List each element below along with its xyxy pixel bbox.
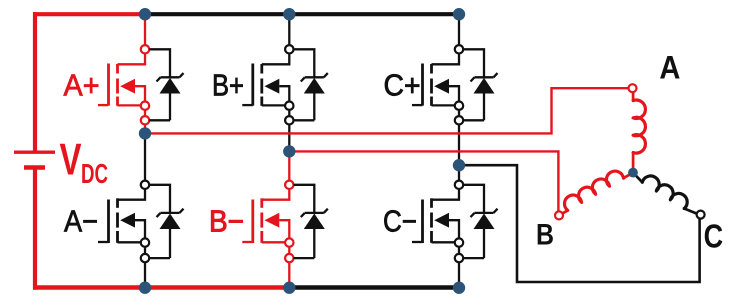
svg-text:B: B (536, 219, 554, 252)
svg-text:C: C (704, 218, 724, 255)
svg-text:A: A (659, 49, 680, 85)
svg-text:B+: B+ (212, 69, 244, 103)
svg-text:A+: A+ (64, 69, 100, 103)
svg-text:C+: C+ (384, 69, 421, 103)
svg-text:B−: B− (209, 205, 244, 239)
svg-text:V: V (60, 136, 82, 185)
svg-text:A−: A− (64, 205, 98, 239)
svg-text:C−: C− (383, 205, 417, 239)
svg-text:DC: DC (81, 158, 108, 189)
